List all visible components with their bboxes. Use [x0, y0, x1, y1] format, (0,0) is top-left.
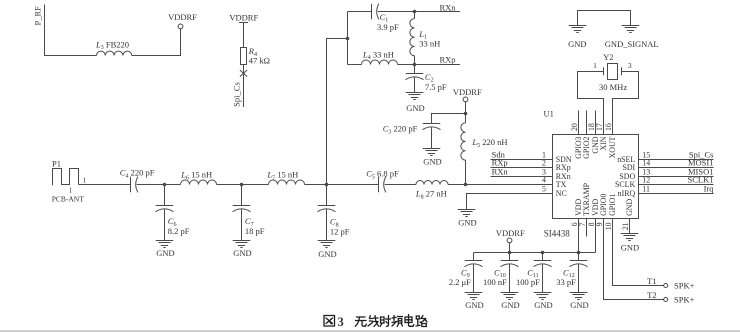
svg-text:9: 9	[595, 222, 604, 226]
ground	[318, 241, 336, 248]
svg-text:XIN: XIN	[599, 136, 608, 150]
inductor L5	[465, 114, 467, 123]
capacitor C10	[509, 253, 511, 261]
capacitor C1	[371, 4, 373, 19]
svg-text:Spi_Cs: Spi_Cs	[232, 82, 242, 107]
wire	[465, 102, 467, 114]
wire RXp	[398, 64, 461, 66]
ground	[423, 149, 441, 156]
wire	[45, 5, 97, 56]
inductor L3	[97, 51, 132, 55]
svg-text:SCLK: SCLK	[615, 180, 635, 189]
wire	[348, 11, 372, 13]
svg-text:1: 1	[69, 187, 73, 195]
svg-text:Irq: Irq	[704, 183, 715, 193]
wire TXRAMP stub	[586, 219, 588, 237]
svg-text:GND_SIGNAL: GND_SIGNAL	[605, 39, 659, 49]
svg-text:7: 7	[578, 222, 587, 226]
svg-text:1: 1	[593, 61, 597, 70]
svg-text:16: 16	[604, 123, 613, 131]
inductor L7	[269, 180, 305, 185]
wire MISO1	[639, 176, 714, 178]
ground	[465, 293, 483, 300]
svg-text:30 MHz: 30 MHz	[599, 82, 627, 92]
wire	[448, 184, 553, 186]
svg-text:C5 6.8 pF: C5 6.8 pF	[366, 169, 399, 181]
svg-text:P1: P1	[52, 158, 61, 168]
svg-text:L4 33 nH: L4 33 nH	[362, 49, 394, 61]
wire	[578, 11, 631, 26]
node junction	[240, 183, 244, 187]
ground	[570, 293, 588, 300]
svg-text:GND: GND	[625, 199, 634, 216]
svg-text:17: 17	[595, 123, 604, 131]
page rule	[0, 330, 740, 332]
svg-text:100 pF: 100 pF	[516, 277, 540, 287]
wire	[432, 114, 466, 124]
wire RXp	[491, 167, 553, 169]
svg-text:GPIO2: GPIO2	[582, 136, 591, 158]
node junction	[413, 63, 417, 67]
svg-text:Y2: Y2	[603, 52, 613, 62]
capacitor C2	[414, 65, 416, 74]
svg-text:33 pF: 33 pF	[556, 277, 576, 287]
svg-text:47 kΩ: 47 kΩ	[249, 55, 270, 65]
svg-text:21: 21	[621, 222, 630, 230]
svg-text:L8 27 nH: L8 27 nH	[415, 189, 447, 201]
svg-text:11: 11	[642, 185, 650, 194]
svg-text:2.2 μF: 2.2 μF	[449, 277, 471, 287]
wire Sdn	[491, 159, 553, 161]
svg-text:GPIO0: GPIO0	[599, 193, 608, 215]
ground GND	[569, 26, 587, 33]
wire	[305, 184, 379, 186]
svg-text:SI4438: SI4438	[544, 228, 571, 238]
svg-text:TXRAMP: TXRAMP	[582, 182, 591, 215]
ground GND_SIGNAL	[622, 26, 640, 33]
inductor L1	[414, 12, 416, 19]
svg-text:14: 14	[642, 159, 650, 168]
svg-text:VDDRF: VDDRF	[496, 228, 525, 238]
wire	[243, 23, 245, 48]
svg-text:VDDRF: VDDRF	[453, 87, 482, 97]
wire	[347, 12, 349, 65]
ground	[406, 93, 424, 100]
svg-text:18 pF: 18 pF	[245, 226, 265, 236]
wire	[132, 29, 181, 56]
power VDDRF terminal	[178, 24, 183, 29]
svg-text:GND: GND	[621, 243, 639, 253]
svg-text:3.9 pF: 3.9 pF	[377, 22, 399, 32]
wire VDD pin6	[578, 219, 580, 253]
wire	[137, 184, 181, 186]
svg-text:GND: GND	[156, 248, 174, 258]
ground	[458, 210, 476, 217]
svg-text:GND: GND	[318, 249, 336, 259]
svg-text:T1: T1	[647, 276, 656, 286]
svg-text:RXn: RXn	[492, 166, 509, 176]
wire pin3 to XOUT	[613, 72, 639, 135]
capacitor C4	[130, 177, 132, 192]
svg-text:GND: GND	[406, 103, 424, 113]
svg-text:GND: GND	[458, 218, 476, 228]
svg-text:GND: GND	[501, 300, 519, 310]
svg-text:5: 5	[542, 185, 546, 194]
caption: figure 3 wireless RF circuit	[324, 316, 335, 327]
inductor L4	[362, 60, 398, 65]
wire Spi_Cs	[639, 159, 714, 161]
svg-text:SDI: SDI	[622, 163, 635, 172]
svg-text:SPK+: SPK+	[674, 294, 695, 304]
capacitor C3	[423, 123, 441, 125]
pin 18 GND	[595, 111, 597, 135]
svg-text:GND: GND	[465, 300, 483, 310]
svg-text:P_RF: P_RF	[33, 6, 43, 26]
svg-text:RXn: RXn	[440, 2, 457, 12]
svg-text:GND: GND	[534, 300, 552, 310]
wire MOSI1	[639, 167, 714, 169]
wire RXn	[491, 176, 553, 178]
wire pin1 to XIN	[578, 72, 604, 135]
capacitor C12	[578, 253, 580, 261]
svg-text:33 nH: 33 nH	[419, 38, 440, 48]
wire	[327, 39, 348, 185]
svg-text:L6 15 nH: L6 15 nH	[180, 170, 212, 182]
pin 19 GPIO2	[586, 111, 588, 135]
node junction	[413, 10, 417, 14]
no-connect X mark	[240, 70, 247, 77]
svg-text:GPIO1: GPIO1	[608, 193, 617, 215]
node junction	[464, 183, 468, 187]
svg-text:RXp: RXp	[556, 163, 571, 172]
svg-text:GND: GND	[570, 300, 588, 310]
svg-text:PCB-ANT: PCB-ANT	[52, 194, 85, 203]
capacitor C11	[542, 253, 544, 261]
capacitor C9	[473, 253, 475, 261]
svg-text:12 pF: 12 pF	[330, 227, 350, 237]
capacitor C5	[378, 177, 380, 192]
svg-text:3: 3	[338, 315, 344, 329]
ground pin21	[629, 219, 631, 234]
node junction	[346, 37, 350, 41]
ground	[534, 293, 552, 300]
svg-text:12: 12	[642, 176, 650, 185]
wire	[217, 184, 269, 186]
wire Irq	[639, 193, 714, 195]
svg-text:GND: GND	[233, 248, 251, 258]
svg-text:C3 220 pF: C3 220 pF	[383, 124, 418, 136]
svg-text:VDDRF: VDDRF	[168, 12, 197, 22]
svg-text:1: 1	[83, 177, 87, 185]
wire	[348, 64, 362, 66]
svg-text:L5 220 nH: L5 220 nH	[471, 137, 507, 149]
ground	[233, 241, 251, 248]
svg-text:TX: TX	[556, 180, 567, 189]
svg-text:XOUT: XOUT	[608, 136, 617, 158]
wire RXn	[378, 11, 460, 13]
node junction	[464, 112, 468, 116]
wire GPIO0 to T2	[604, 219, 664, 300]
resistor R4	[241, 48, 247, 65]
inductor L6	[181, 180, 217, 185]
wire	[385, 184, 416, 186]
svg-text:nIRQ: nIRQ	[618, 189, 636, 198]
svg-text:4: 4	[542, 176, 546, 185]
wire SCLK1	[639, 184, 714, 186]
svg-text:SPK+: SPK+	[674, 280, 695, 290]
wire	[243, 65, 245, 108]
wire VDD pin8	[595, 219, 597, 253]
svg-text:GND: GND	[568, 39, 586, 49]
svg-text:NC: NC	[556, 189, 567, 198]
capacitor C7	[241, 185, 243, 206]
svg-text:T2: T2	[647, 290, 656, 300]
wire	[79, 184, 131, 186]
svg-text:8.2 pF: 8.2 pF	[168, 226, 190, 236]
svg-text:20: 20	[570, 123, 579, 131]
svg-text:3: 3	[628, 61, 632, 70]
svg-text:GND: GND	[423, 156, 441, 166]
svg-text:U1: U1	[544, 109, 554, 119]
node junction	[325, 183, 329, 187]
node junction	[163, 183, 167, 187]
svg-text:7.5 pF: 7.5 pF	[425, 82, 447, 92]
svg-text:L3 FB220: L3 FB220	[95, 39, 129, 51]
wire GPIO1 to T1	[613, 219, 664, 286]
ground	[501, 293, 519, 300]
svg-text:RXp: RXp	[440, 54, 456, 64]
capacitor C8	[326, 185, 328, 206]
svg-text:VDDRF: VDDRF	[229, 12, 258, 22]
capacitor C6	[164, 185, 166, 206]
svg-text:100 nF: 100 nF	[483, 277, 507, 287]
IC U1 SI4438 body	[553, 135, 639, 219]
wire	[467, 194, 553, 210]
svg-text:10: 10	[604, 222, 613, 230]
wire VDD bus	[474, 252, 596, 254]
pin 20 GPIO3	[578, 111, 580, 135]
inductor L8	[416, 181, 448, 185]
svg-text:2: 2	[542, 159, 546, 168]
ground	[156, 241, 174, 248]
